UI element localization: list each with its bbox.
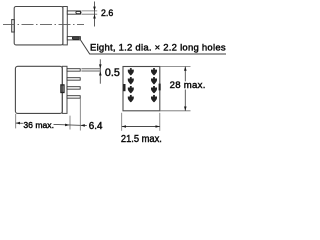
svg-text:28 max.: 28 max. [170, 80, 206, 91]
dimension 6.4 [80, 98, 103, 132]
dimension 2.6 [93, 2, 113, 27]
svg-text:Eight, 1.2 dia. × 2.2 long hol: Eight, 1.2 dia. × 2.2 long holes [90, 43, 226, 54]
svg-text:6.4: 6.4 [89, 121, 103, 132]
terminal 8 (bottom view) [151, 95, 157, 102]
svg-text:2.6: 2.6 [101, 8, 113, 18]
dimension 0.5 [99, 59, 120, 83]
terminal 2 (bottom view) [128, 77, 134, 84]
terminal 3 (bottom view) [128, 86, 134, 93]
terminal 1 (bottom view) [128, 68, 134, 75]
keying notch left (top view) [12, 20, 15, 32]
extension lines from pin row 1 [81, 11, 97, 14]
keying notch right (bottom view) [159, 84, 161, 91]
terminal pin row 1 (top view) [67, 11, 80, 14]
svg-text:0.5: 0.5 [105, 67, 120, 79]
terminal pin 4 (side view) [67, 96, 80, 98]
terminal 4 (bottom view) [128, 95, 134, 102]
base plate top view [63, 7, 67, 45]
keying notch right (side view) [61, 85, 64, 93]
hole in pin row 1 [76, 11, 81, 13]
note: Eight, 1.2 dia. x 2.2 long holes [90, 43, 226, 54]
terminal 7 (bottom view) [151, 86, 157, 93]
extension lines from pin 1 [81, 69, 100, 71]
terminal pin 2 (side view) [67, 78, 80, 80]
terminal pin row 2 (top view) [67, 37, 80, 40]
svg-text:36 max.: 36 max. [23, 120, 54, 130]
hole in pin row 2 [72, 37, 79, 40]
leader line to hole note [81, 40, 226, 54]
svg-text:21.5 max.: 21.5 max. [121, 134, 162, 145]
terminal pin 3 (side view) [67, 87, 80, 89]
base plate side view [62, 66, 67, 113]
relay case top view [14, 7, 63, 45]
relay case side view [15, 66, 62, 113]
dimension 28 max [160, 67, 206, 111]
center line [3, 24, 84, 26]
terminal 6 (bottom view) [151, 77, 157, 84]
relay bottom view outline [123, 67, 160, 111]
terminal 5 (bottom view) [151, 68, 157, 75]
keying notch left (bottom view) [123, 84, 125, 91]
dimension 21.5 max [121, 113, 162, 145]
dimension 36 max [16, 114, 87, 130]
terminal pin 1 (side view) [67, 69, 80, 71]
